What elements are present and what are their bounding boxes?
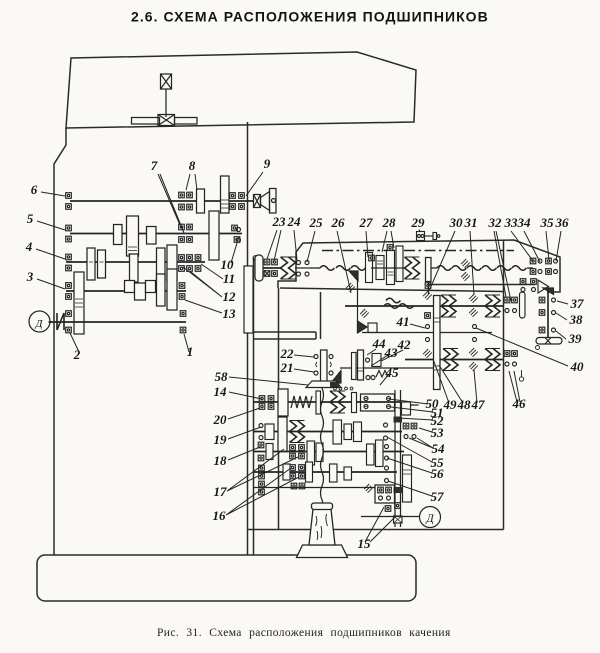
waves on shaft y306: [384, 304, 398, 309]
gear III mid: [130, 254, 139, 282]
dash-dot centerline: [322, 250, 514, 252]
bearing 28 square: [387, 245, 393, 251]
svg-text:24: 24: [287, 214, 302, 229]
bearing I-mid pair: [179, 192, 185, 198]
cylinder 50/51: [361, 394, 395, 411]
knee guide lines: [254, 332, 317, 339]
bearing IV right: [179, 283, 185, 289]
svg-text:8: 8: [189, 158, 196, 173]
wire inner wall: [253, 258, 255, 555]
chevron pair 1: [441, 295, 456, 317]
svg-text:46: 46: [512, 396, 527, 411]
svg-text:15: 15: [358, 536, 372, 551]
svg-text:45: 45: [385, 365, 400, 380]
spindle bearing block rows 33-36: [530, 258, 536, 264]
feed box inner wall: [278, 288, 280, 530]
column right edge wire: [247, 122, 249, 555]
spring coupling 58: [291, 396, 312, 408]
shaft IV: [66, 290, 186, 292]
svg-text:34: 34: [517, 215, 532, 230]
shaft F5 y=487.5: [254, 487, 375, 489]
vertical elevating screw (wavy): [321, 388, 324, 507]
svg-text:Рис. 31. Схема расположения по: Рис. 31. Схема расположения подшипников …: [157, 627, 451, 639]
bearing pairs 16: [290, 465, 296, 471]
bearing IV-left: [66, 283, 72, 289]
gears F4: [283, 464, 290, 480]
coupling И: [57, 313, 64, 330]
clamp knob: [161, 74, 172, 89]
svg-text:48: 48: [457, 397, 472, 412]
gear I big (meshes shaft II): [221, 176, 230, 213]
svg-text:21: 21: [280, 360, 294, 375]
svg-text:29: 29: [411, 215, 426, 230]
bearing 41a: [426, 325, 430, 329]
motor shaft: [49, 321, 187, 323]
bearing 37: [539, 297, 545, 303]
clutch hatch mid: [469, 294, 478, 303]
bar F1: [316, 391, 321, 414]
spring 45: [376, 371, 388, 378]
gear I small: [197, 189, 205, 213]
shaft I: [70, 200, 254, 202]
svg-text:54: 54: [432, 441, 446, 456]
bearings III right trio: [179, 255, 185, 261]
svg-text:43: 43: [384, 345, 399, 360]
bevel gear wedges: [538, 280, 549, 293]
svg-text:Д: Д: [425, 513, 434, 525]
worm shaft line: [340, 367, 434, 369]
svg-text:11: 11: [223, 271, 235, 286]
bracket 42: [368, 323, 377, 333]
svg-text:49: 49: [443, 397, 458, 412]
chevron F1: [330, 391, 345, 413]
bearing 38: [539, 310, 545, 316]
gear II big (meshes shaft III): [209, 211, 219, 260]
bearing I-right pair: [230, 193, 236, 199]
block 57: [375, 485, 395, 503]
svg-text:37: 37: [570, 296, 585, 311]
svg-text:56: 56: [431, 466, 445, 481]
bevel pair at shaft 41: [358, 321, 368, 333]
drive shaft left flange: [255, 255, 263, 281]
svg-text:6: 6: [31, 182, 38, 197]
svg-text:20: 20: [213, 412, 228, 427]
gears F3 right: [307, 441, 315, 465]
gear block F2 mid: [333, 420, 342, 444]
svg-text:19: 19: [214, 432, 228, 447]
wavy shaft section A: [310, 267, 320, 269]
gears III left pair: [87, 248, 95, 280]
clutch hatch 47: [469, 348, 478, 357]
guide pin pill: [520, 292, 526, 318]
svg-text:44: 44: [372, 336, 387, 351]
handle bar hub cross: [545, 338, 551, 345]
feed motor circle: [420, 507, 441, 528]
collar block IV: [125, 281, 135, 293]
gear F3a: [266, 444, 273, 460]
svg-text:41: 41: [396, 314, 410, 329]
svg-text:36: 36: [555, 215, 570, 230]
shaft F1 y=402: [254, 401, 400, 403]
handle bar: [536, 338, 562, 345]
motor circle Д: [29, 311, 50, 332]
shaft F1 right stub: [401, 404, 419, 406]
machine outline group: [37, 52, 560, 601]
svg-text:10: 10: [221, 257, 235, 272]
svg-text:57: 57: [431, 489, 445, 504]
svg-text:5: 5: [27, 211, 34, 226]
gears IV right: [157, 274, 166, 306]
small bearing sq on 41: [425, 313, 431, 319]
bearing block 46: [504, 351, 510, 357]
clamp stem: [165, 89, 167, 117]
svg-text:26: 26: [331, 215, 346, 230]
bearing II-mid pair: [179, 224, 185, 230]
svg-text:16: 16: [213, 508, 227, 523]
gear block II (triple): [114, 225, 123, 245]
svg-text:47: 47: [471, 397, 486, 412]
gear F1: [278, 389, 288, 416]
bearing 41b / 40: [473, 325, 477, 329]
sleeve lower bearing: [425, 283, 431, 289]
svg-text:13: 13: [223, 306, 237, 321]
bearing block 32: [504, 297, 510, 303]
svg-text:4: 4: [25, 239, 33, 254]
overarm clamp mechanism: [132, 74, 198, 126]
bearing M-left: [66, 311, 72, 317]
svg-text:33: 33: [504, 215, 519, 230]
shaft III: [66, 261, 205, 263]
head lower line: [280, 288, 504, 292]
svg-text:2: 2: [73, 347, 81, 362]
svg-text:32: 32: [488, 215, 503, 230]
svg-text:27: 27: [359, 215, 374, 230]
thrust piece 10: [234, 237, 240, 243]
chevron coupling left: [281, 257, 296, 279]
spline hatch left of chevron: [423, 291, 432, 300]
bearing II-left: [66, 225, 72, 231]
svg-text:39: 39: [568, 331, 583, 346]
svg-text:Д: Д: [35, 318, 44, 330]
chevron pair 2: [485, 295, 500, 317]
clamp bar: [132, 118, 160, 125]
bearing block 30/32 lower: [520, 279, 526, 285]
bevel at top of vertical takeoff: [349, 271, 358, 281]
shaft F6 y=516.5 with motor: [361, 516, 420, 518]
column left edge: [54, 128, 66, 555]
svg-text:53: 53: [431, 425, 445, 440]
tall gear F2/F3: [278, 417, 287, 452]
gear IV big (to motor pinion): [74, 272, 84, 334]
gear F2a: [265, 424, 274, 440]
chevron F2: [290, 421, 305, 443]
wedge left: [331, 371, 341, 384]
spline hatch upper: [346, 283, 355, 292]
gears III right: [157, 248, 166, 280]
wavy shaft section B: [431, 267, 437, 269]
overarm beam outline: [66, 52, 416, 128]
svg-text:38: 38: [569, 312, 584, 327]
knee slide vertical: [320, 292, 322, 339]
base: [37, 555, 416, 601]
oil circle: [536, 346, 540, 350]
svg-text:23: 23: [272, 214, 287, 229]
label leaders left: [36, 172, 263, 352]
bearing pairs 17: [290, 445, 296, 451]
vertical gear shaft x=398: [395, 390, 401, 527]
svg-text:28: 28: [382, 215, 397, 230]
bearing M-right: [180, 311, 186, 317]
pivot circle: [253, 256, 258, 261]
svg-text:3: 3: [26, 269, 34, 284]
bearing III-left: [66, 254, 72, 260]
svg-text:40: 40: [570, 359, 585, 374]
bearing block 53/54: [403, 423, 409, 429]
bearing 39: [539, 327, 545, 333]
hatch near 48: [423, 349, 432, 358]
svg-text:22: 22: [280, 346, 295, 361]
shaft F2 y=431: [254, 431, 402, 433]
svg-text:12: 12: [223, 289, 237, 304]
vertical feed shaft 37-39: [547, 292, 549, 338]
head top contour: [278, 240, 560, 292]
wire rod on column wall: [244, 266, 253, 333]
bearing F2 right circles: [384, 423, 388, 427]
ratchet hatch: [364, 484, 373, 493]
shaft II: [70, 233, 242, 235]
svg-text:14: 14: [214, 384, 228, 399]
svg-text:17: 17: [214, 484, 228, 499]
svg-text:7: 7: [151, 158, 158, 173]
svg-text:2.6. СХЕМА РАСПОЛОЖЕНИЯ ПОДШИП: 2.6. СХЕМА РАСПОЛОЖЕНИЯ ПОДШИПНИКОВ: [131, 9, 489, 25]
svg-text:42: 42: [397, 337, 412, 352]
chevron coupling mid pair: [405, 257, 420, 279]
bearings 23 block: [264, 259, 270, 265]
sliding sleeve bar: [426, 258, 432, 282]
bearing circles 24/25: [297, 261, 301, 265]
svg-text:58: 58: [215, 369, 229, 384]
gear cluster 27/28: [366, 246, 404, 285]
vertical takeoff shaft: [357, 277, 359, 333]
svg-text:35: 35: [540, 215, 555, 230]
vertical sleeve 43/44 pair: [352, 353, 357, 380]
bearings 43: [366, 376, 370, 380]
oil circle 46: [519, 377, 523, 381]
hatch marks on spindle: [461, 259, 470, 268]
bearing 27 square: [369, 255, 375, 261]
chevron pair feed 2: [485, 349, 500, 371]
svg-text:18: 18: [214, 453, 228, 468]
drive shaft line left: [263, 267, 282, 269]
shaft F4 y=472: [254, 471, 397, 473]
knee box right edge: [503, 241, 505, 530]
svg-text:9: 9: [264, 156, 271, 171]
bearing I-left: [66, 193, 72, 199]
bar F1b: [352, 393, 357, 413]
bearing stack 14/20: [259, 396, 265, 402]
svg-text:25: 25: [309, 215, 324, 230]
chevron pair feed 1: [443, 349, 458, 371]
shaft F3 y=451: [254, 451, 404, 453]
screw bell cover: [297, 503, 348, 558]
spline hatch lower: [360, 309, 369, 318]
cylinder 42: [372, 354, 381, 367]
mount base: [306, 381, 341, 388]
knee box bottom: [248, 529, 504, 531]
bearing II-right: [232, 225, 238, 231]
item 29 (switch): [417, 232, 440, 241]
svg-text:30: 30: [449, 215, 464, 230]
svg-text:31: 31: [464, 215, 478, 230]
svg-text:1: 1: [187, 344, 194, 359]
spindle lower line: [429, 284, 535, 286]
cone pulley 9: [254, 189, 277, 214]
